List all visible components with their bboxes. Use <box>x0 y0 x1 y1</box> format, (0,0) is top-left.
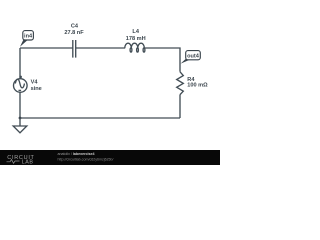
wire: L4 to top-right corner, down to R4 <box>144 48 180 72</box>
svg-text:V4: V4 <box>31 79 39 85</box>
footer black bar <box>0 150 220 165</box>
svg-text:sine: sine <box>31 86 42 92</box>
wire: top of V4 up to in4 corner <box>19 48 21 79</box>
wire: R4 down to bottom-right corner <box>179 95 181 118</box>
wire: C4 to L4 <box>76 47 125 49</box>
wire: bottom of V4 to bottom wire <box>19 92 21 118</box>
node in4 flag <box>20 31 33 47</box>
inductor L4 <box>125 29 146 52</box>
wire: bottom horizontal <box>20 117 180 119</box>
svg-text:178 mH: 178 mH <box>126 36 146 42</box>
svg-text:in4: in4 <box>24 34 33 40</box>
node out4 flag <box>181 51 201 64</box>
svg-text:LAB: LAB <box>22 159 34 165</box>
svg-text:anatolix / labexercise4: anatolix / labexercise4 <box>58 152 95 156</box>
ground <box>13 118 27 133</box>
svg-text:100 mΩ: 100 mΩ <box>187 83 208 89</box>
voltage source V4 <box>13 76 41 93</box>
svg-text:L4: L4 <box>132 29 139 35</box>
svg-text:C4: C4 <box>71 23 79 29</box>
svg-text:27.8 nF: 27.8 nF <box>64 30 84 36</box>
wire: top-left horizontal (in4 node to C4) <box>20 47 73 49</box>
svg-text:out4: out4 <box>187 54 200 60</box>
capacitor C4 <box>64 23 84 57</box>
resistor R4 <box>177 72 208 95</box>
svg-text:http://circuitlab.com/c62y6mzj: http://circuitlab.com/c62y6mzj6z5b/ <box>58 157 114 161</box>
junction dot (V4 bottom / ground) <box>19 117 22 120</box>
